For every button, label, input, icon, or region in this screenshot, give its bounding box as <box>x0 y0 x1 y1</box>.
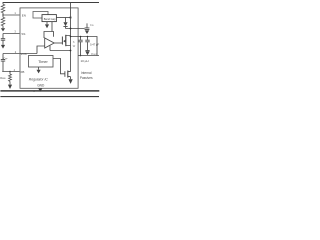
svg-text:CIN: CIN <box>90 24 94 27</box>
capacitor C2 <box>80 37 82 40</box>
wire Cff bottom to FB <box>2 61 4 71</box>
ground rail <box>0 90 99 92</box>
node fb sense <box>70 50 72 52</box>
node FB junction <box>9 71 11 73</box>
svg-text:Timer: Timer <box>38 60 48 64</box>
ground arrow B <box>1 45 5 49</box>
wire feedback sense <box>50 46 71 51</box>
transistor Q2 <box>64 71 66 77</box>
wire top VIN rail <box>3 2 99 4</box>
wire y28.5 <box>66 28 85 30</box>
diode D1 <box>65 18 67 23</box>
block front box (bandgap) <box>42 15 56 22</box>
wire RFBB stub <box>9 72 11 75</box>
wire C1 bottom <box>2 41 4 45</box>
ground arrow E on output <box>85 50 89 52</box>
ground arrow A <box>1 28 5 31</box>
resistor R1 <box>1 4 5 13</box>
resistor RFBB <box>9 74 12 81</box>
capacitor C1 <box>1 39 5 41</box>
capacitor CIN with ground <box>86 23 88 27</box>
svg-text:EN: EN <box>22 13 26 17</box>
wire switch node out <box>71 37 98 56</box>
wire FB pin <box>2 71 19 73</box>
svg-text:Passives: Passives <box>80 76 93 80</box>
svg-text:Band Gap: Band Gap <box>44 17 56 21</box>
capacitor CFF <box>1 60 5 62</box>
bottom border line <box>0 96 99 98</box>
svg-text:S: S <box>73 40 75 44</box>
node EN tap <box>2 14 3 15</box>
svg-text:VOS: VOS <box>20 52 26 56</box>
svg-text:Internal: Internal <box>81 71 92 75</box>
ground arrow C <box>8 85 12 89</box>
module box <box>20 8 78 88</box>
transistor Q1 pass FET <box>61 37 63 45</box>
svg-text:Regulator IC: Regulator IC <box>29 77 49 81</box>
node VIN wire junction <box>70 28 72 30</box>
wire Q2 source <box>70 77 72 80</box>
ground stub timer <box>38 67 40 70</box>
wire VOUT <box>78 55 99 57</box>
wire C1 stub <box>2 34 4 39</box>
op-amp U1 <box>45 38 55 48</box>
wire VIN vertical <box>70 3 72 52</box>
wire op-amp output <box>54 42 62 44</box>
svg-text:1: 1 <box>14 11 16 15</box>
wire VOS pin <box>3 53 37 55</box>
block Timer <box>29 56 54 68</box>
ground arrow F <box>37 70 41 74</box>
node sw <box>70 36 72 38</box>
svg-text:CFF: CFF <box>3 56 8 60</box>
ground arrow G <box>69 79 73 84</box>
wire EN <box>3 14 20 16</box>
wire timer to Q2 gate <box>53 59 65 74</box>
ground arrow H (GND pin) <box>38 88 42 91</box>
svg-text:GND: GND <box>37 84 45 88</box>
svg-text:0.47 µF: 0.47 µF <box>90 43 100 47</box>
ground stub D <box>46 22 48 25</box>
wire Cff top stub <box>2 54 4 60</box>
wire EN divider node <box>2 13 4 17</box>
capacitor C3 <box>87 37 89 40</box>
wire RFBB to ground <box>9 81 11 84</box>
svg-text:W: W <box>73 44 76 48</box>
wire to op-amp inverting input <box>37 46 45 54</box>
wire R2 to ground <box>2 26 4 28</box>
wire Q2 drain <box>70 52 72 72</box>
block back box <box>33 12 48 19</box>
wire pin3 <box>3 33 20 35</box>
svg-text:RFBB: RFBB <box>0 77 6 80</box>
wire bandgap out <box>56 17 70 19</box>
svg-text:10 µH: 10 µH <box>81 59 89 63</box>
ground arrow D <box>45 24 49 28</box>
wire left rail top <box>2 3 4 5</box>
resistor R2 <box>1 17 5 26</box>
wire reference to op-amp + input <box>44 22 54 38</box>
svg-text:SS: SS <box>21 32 25 36</box>
svg-text:FB: FB <box>21 70 25 74</box>
node bandgap/VIN <box>70 17 72 19</box>
